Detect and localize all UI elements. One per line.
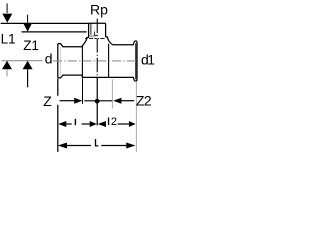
thread band (gray) inside branch (89, 35, 95, 38)
dimension L1 arrow up (2, 61, 12, 69)
inner mouth line left (light) (59, 47, 61, 76)
dimension Z-Z2 mid line (84, 100, 112, 102)
dimension L1 leader bottom (gray) (6, 69, 8, 76)
svg-text:L1: L1 (1, 31, 16, 46)
label l2 (108, 117, 109, 125)
run axis centerline (dash-dot) (53, 60, 136, 62)
extension line left mouth (57, 79, 59, 152)
run axis centerline left segment (2, 60, 43, 62)
node dot at axis (95, 99, 100, 104)
dimension L arrow left (58, 143, 67, 149)
branch axis centerline (dash-dot) (96, 19, 98, 78)
extension line right mouth (gray) (135, 82, 137, 152)
dimension Z1 arrow up (23, 61, 33, 69)
svg-text:d: d (45, 50, 53, 66)
extension line branch top (1, 22, 89, 24)
dimension Z arrow right (74, 98, 82, 104)
dimension l line (66, 123, 71, 125)
joint line left socket (81, 46, 83, 77)
dimension l arrow left (58, 121, 66, 127)
svg-text:d1: d1 (141, 52, 155, 68)
dimension L1 leader top (6, 3, 8, 13)
extension line thread plane (22, 31, 87, 33)
dimension L arrow right (126, 143, 135, 149)
thread end mark (95, 32, 98, 36)
branch axis extension (solid) (96, 78, 98, 125)
fitting body outline (tee with press sockets and threaded branch) (58, 23, 137, 81)
dimension l arrow at axis (90, 121, 97, 127)
dimension Z1 leader top (27, 15, 29, 23)
dimension Z2 line (121, 100, 134, 102)
svg-text:Rp: Rp (90, 1, 108, 17)
hidden thread line (dashed) (85, 37, 105, 39)
dimension L1 arrow down (2, 14, 12, 23)
extension line left socket stop (82, 78, 84, 104)
svg-text:Z2: Z2 (136, 93, 152, 109)
dimension l2 arrow right (129, 121, 136, 127)
dimension Z2 arrow left (113, 98, 121, 104)
bore line inside branch (90, 24, 92, 35)
dimension l2 arrow at axis (98, 121, 106, 127)
dimension l line 2 (82, 123, 90, 125)
joint line right socket (108, 44, 110, 77)
inner mouth line right (135, 43, 137, 79)
dimension L line (67, 145, 91, 147)
svg-text:Z: Z (43, 93, 52, 109)
extension line right socket stop (gray) (111, 79, 113, 108)
dimension Z1 leader bottom (27, 69, 29, 87)
dimension l2 line (118, 123, 129, 125)
svg-text:Z1: Z1 (23, 38, 39, 53)
label L (95, 139, 98, 146)
dimension Z line (60, 100, 75, 102)
dimension L line 2 (101, 145, 126, 147)
dimension Z1 arrow down (23, 23, 32, 32)
svg-text:2: 2 (111, 116, 117, 128)
label l (75, 119, 76, 125)
